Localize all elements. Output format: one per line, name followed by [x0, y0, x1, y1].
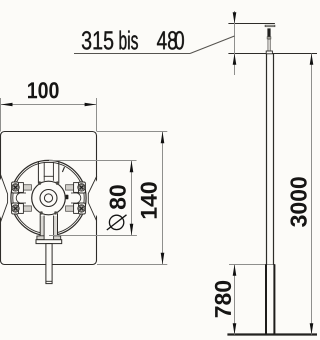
- base flange: [36, 240, 62, 244]
- arrowhead 100 right: [85, 103, 97, 107]
- bottom bracket: [12, 203, 19, 214]
- label 780: [215, 281, 231, 317]
- top carriage: [74, 183, 79, 193]
- leader diagonal: [190, 36, 235, 54]
- bottom carriage: [74, 204, 79, 214]
- diameter symbol: [109, 215, 123, 229]
- channel above hub: [45, 163, 53, 182]
- top screw: [12, 184, 19, 191]
- arrowhead 3000 top: [310, 54, 314, 65]
- wire: ceiling line: [228, 53, 317, 55]
- left edge notch: [0, 174, 8, 223]
- hanger bolt washer: [265, 25, 275, 27]
- arrowhead 80 top: [130, 161, 134, 173]
- arrowhead 780 bottom: [233, 323, 237, 334]
- arrowhead 140 bottom: [161, 253, 165, 265]
- arrowhead 140 top: [161, 132, 165, 144]
- leader underline: [74, 53, 190, 55]
- top shaft: [66, 185, 74, 190]
- dimension line 315 bis 480: [234, 11, 236, 75]
- label word "48": [157, 31, 177, 50]
- top bracket: [12, 182, 19, 193]
- arrowhead 100 left: [1, 103, 13, 107]
- tick mark right of channel: [62, 167, 64, 172]
- clamp body lobe right: [77, 193, 81, 203]
- arrowhead down to top line: [233, 12, 237, 23]
- bottom carriage: [18, 204, 23, 214]
- bottom shaft: [23, 206, 31, 211]
- hanger bolt nut: [267, 37, 271, 39]
- 780 extension line at tube joint: [229, 264, 275, 266]
- bottom bracket: [79, 203, 86, 214]
- hub: [32, 181, 66, 215]
- wire: floor line: [227, 333, 317, 335]
- arrowhead 80 bottom: [130, 224, 134, 236]
- bottom screw: [12, 205, 19, 212]
- clamp body lobe left: [16, 193, 20, 203]
- arrowhead up to ceiling line: [233, 54, 237, 65]
- mounting plate: [1, 132, 97, 265]
- wire: top fixing line (slab above): [228, 23, 275, 25]
- clamp assemblies: [12, 182, 32, 214]
- label 140: [141, 182, 157, 218]
- dim 140: [97, 131, 167, 133]
- pole upper tube: [266, 54, 268, 265]
- right edge notch: [88, 177, 99, 220]
- dimension line 3000: [311, 54, 313, 335]
- label 80: [110, 185, 126, 209]
- arrowhead 780 top: [233, 265, 237, 276]
- hanger bolt rod: [268, 39, 270, 51]
- label word "315": [82, 31, 113, 50]
- bottom screw: [78, 205, 85, 212]
- dimension line 780: [234, 265, 236, 335]
- top carriage: [18, 183, 23, 193]
- arrowhead 3000 bottom: [310, 323, 314, 334]
- top bracket: [79, 182, 86, 193]
- stem: [46, 244, 52, 284]
- label overlapping "0": [175, 31, 184, 50]
- weld wedges at hub/channel junctions: [38, 181, 41, 185]
- dim 100: [0, 98, 2, 132]
- label 100: [28, 82, 59, 98]
- leg feet: [37, 236, 44, 240]
- bayonet ring (Ø80): [11, 160, 86, 235]
- hanger bolt threaded section: [267, 28, 270, 36]
- set screw dot: [66, 195, 69, 200]
- pole lower tube (outer, thicker): [265, 264, 267, 334]
- label 3000: [290, 177, 306, 227]
- pole top cap: [266, 51, 272, 54]
- dim diameter 80: [49, 160, 137, 162]
- label word "bis": [120, 31, 138, 50]
- yoke legs below hub: [40, 213, 57, 240]
- top screw: [78, 184, 85, 191]
- top shaft: [23, 185, 31, 190]
- bottom shaft: [66, 206, 74, 211]
